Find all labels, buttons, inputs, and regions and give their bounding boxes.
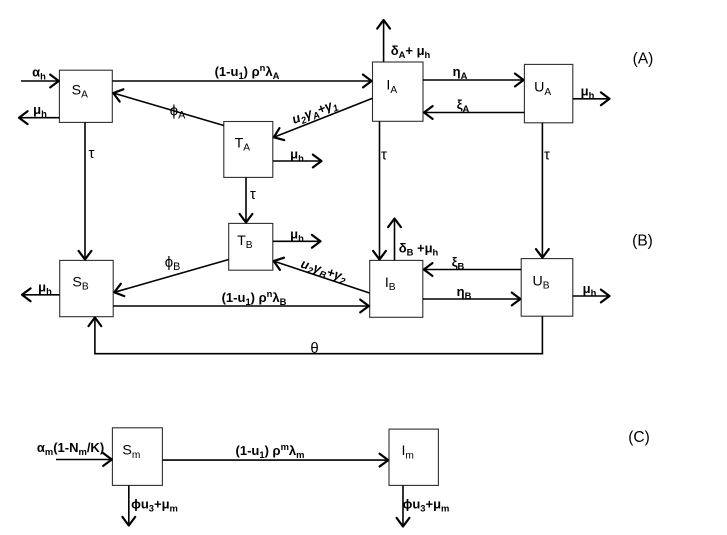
svg-text:τ: τ <box>250 186 256 203</box>
arrow xi_A from U_A to I_A <box>424 106 524 119</box>
svg-text:(B): (B) <box>632 233 653 250</box>
arrow mu_h out of T_A <box>273 155 322 168</box>
box S_B (susceptible humans B) <box>60 260 113 316</box>
box T_B (treated B) <box>229 223 273 270</box>
svg-text:τ: τ <box>381 147 387 164</box>
arrow mu_h out of S_A <box>19 111 59 124</box>
svg-text:ηB​: ηB​ <box>457 284 472 301</box>
arrow (1-u1) rho^n lambda_B from S_B to I_B <box>113 300 368 313</box>
svg-text:μh​: μh​ <box>33 102 47 119</box>
svg-text:αh​: αh​ <box>32 65 46 82</box>
arrow (1-u1) rho^n lambda_A from S_A to I_A <box>112 75 371 88</box>
svg-text:ϕA​: ϕA​ <box>170 103 186 122</box>
arrow delta_B+mu_h up out of I_B <box>388 219 401 261</box>
arrow mu_h out of U_B <box>573 290 610 303</box>
arrow alpha_h into S_A <box>21 75 59 88</box>
svg-text:(A): (A) <box>633 51 654 68</box>
box I_A (infected humans A) <box>373 62 424 121</box>
arrow u2*gamma_A+gamma_1 from I_A to T_A <box>274 98 373 140</box>
svg-text:μh​: μh​ <box>583 281 597 298</box>
arrow tau from I_A to I_B <box>373 121 386 259</box>
arrow eta_A from I_A to U_A <box>423 74 524 87</box>
arrow xi_B from U_B to I_B <box>424 263 521 276</box>
svg-text:u2​γA​+γ1​: u2​γA​+γ1​ <box>290 96 340 129</box>
svg-text:(1-u1​) ρn​λA​: (1-u1​) ρn​λA​ <box>215 62 280 81</box>
svg-text:(1-u1​) ρn​λB​: (1-u1​) ρn​λB​ <box>222 288 287 307</box>
svg-text:μh​: μh​ <box>290 147 304 164</box>
svg-text:δA​+ μh​: δA​+ μh​ <box>391 43 431 60</box>
svg-text:ξA​: ξA​ <box>457 97 470 114</box>
box U_B <box>521 259 573 317</box>
arrow eta_B from I_B to U_B <box>423 293 521 306</box>
svg-text:τ: τ <box>89 145 95 162</box>
svg-text:θ: θ <box>310 340 318 357</box>
arrow phi*u3+mu_m down out of S_m <box>122 486 135 526</box>
svg-text:τ: τ <box>544 147 550 164</box>
svg-text:μh​: μh​ <box>581 84 595 101</box>
svg-text:αm​(1-Nm​/K): αm​(1-Nm​/K) <box>37 440 104 457</box>
box S_A (susceptible humans A) <box>59 70 112 122</box>
box T_A (treated A) <box>224 122 273 178</box>
arrow mu_h out of S_B <box>22 288 60 301</box>
svg-text:ηA​: ηA​ <box>453 64 468 81</box>
svg-text:δB​ +μh​: δB​ +μh​ <box>399 241 439 258</box>
arrow tau from T_A to T_B <box>240 178 253 223</box>
arrow phi*u3+mu_m down out of I_m <box>397 486 410 527</box>
arrow u2*gamma_B+gamma_2 from I_B to T_B <box>274 258 370 293</box>
wire theta loop from U_B bottom to S_B bottom <box>89 316 544 353</box>
arrow phi_B from T_B to S_B <box>114 260 228 297</box>
svg-text:ϕB​: ϕB​ <box>165 254 181 273</box>
svg-text:ϕu3​+μm​: ϕu3​+μm​ <box>131 497 178 514</box>
arrow tau from S_A to S_B <box>79 123 92 260</box>
box U_A <box>524 64 572 122</box>
arrow phi_A from T_A to S_A <box>113 89 224 125</box>
arrow mu_h out of U_A <box>573 92 610 105</box>
arrow delta_A+mu_h up out of I_A <box>377 20 390 62</box>
svg-text:(1-u1​) ρm​λm​: (1-u1​) ρm​λm​ <box>236 441 305 460</box>
svg-text:μh​: μh​ <box>38 280 52 297</box>
box I_B (infected humans B) <box>370 260 423 317</box>
box S_m (susceptible mosquitoes) <box>112 428 162 486</box>
arrow tau from U_A to U_B <box>536 123 549 258</box>
svg-text:u2​γB​+γ2​: u2​γB​+γ2​ <box>298 256 349 287</box>
svg-text:(C): (C) <box>628 429 650 446</box>
svg-text:ϕu3​+μm​: ϕu3​+μm​ <box>403 497 450 514</box>
svg-text:ξB​: ξB​ <box>452 255 465 272</box>
arrow alpha_m(1-Nm/K) into S_m <box>56 453 112 466</box>
arrow mu_h out of T_B <box>273 235 321 248</box>
arrow (1-u1) rho^m lambda_m from S_m to I_m <box>163 454 389 467</box>
svg-text:μh​: μh​ <box>290 227 304 244</box>
box I_m (infected mosquitoes) <box>389 429 438 485</box>
